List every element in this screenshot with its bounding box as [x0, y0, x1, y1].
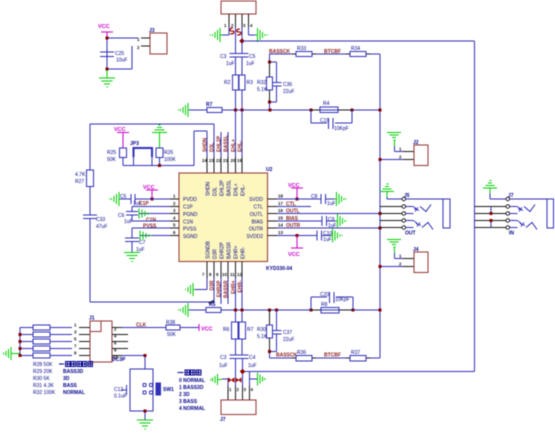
- svg-text:EHR+: EHR+: [234, 245, 240, 259]
- node junction SW1 bottom: [144, 410, 147, 413]
- ground (above J7 jack): [483, 181, 497, 194]
- svg-text:SVDD2: SVDD2: [246, 234, 263, 240]
- svg-text:R34: R34: [351, 46, 360, 52]
- pin circle J7-1: [506, 197, 510, 201]
- svg-text:4 NORMAL: 4 NORMAL: [179, 406, 205, 412]
- svg-text:D3R: D3R: [213, 249, 219, 259]
- wire IC col4 stub: [227, 132, 229, 157]
- wire R37 to right bus: [370, 357, 380, 359]
- pin circle J5-1: [402, 197, 406, 201]
- node junction VCC row1: [151, 198, 154, 201]
- wire ground to J7 tip: [490, 194, 506, 200]
- svg-text:OUT: OUT: [405, 231, 416, 237]
- jack J7 sleeve bar: [547, 199, 554, 228]
- wire R6 to C3b: [235, 339, 237, 355]
- jack J5 contact 1: [406, 207, 418, 214]
- svg-text:1 BASS3D: 1 BASS3D: [179, 385, 204, 391]
- polarity mark S2 (red squiggle): [237, 29, 241, 35]
- node junction SW1 top: [144, 354, 147, 357]
- ground (left of bottom connector): [211, 374, 222, 385]
- wire left loop bottom: [90, 219, 214, 303]
- pin circle J5-2: [402, 205, 406, 209]
- wire IC col2 from top loop: [213, 124, 215, 157]
- svg-text:J1: J1: [89, 316, 95, 322]
- svg-text:EHL-: EHL-: [238, 140, 244, 152]
- wire SW1 to ground: [144, 411, 146, 420]
- resistor R7b: [239, 322, 246, 339]
- node junction below R26: [158, 164, 161, 167]
- resistor R7: [207, 108, 222, 113]
- ground (row1 left): [110, 192, 121, 206]
- capacitor C25: [100, 52, 114, 57]
- wire BIAS row to C9: [277, 220, 322, 222]
- svg-text:VCC: VCC: [143, 185, 155, 191]
- svg-text:EHL+: EHL+: [234, 183, 240, 196]
- wire stubs to J7 pins: [475, 207, 506, 228]
- svg-text:0.1uF: 0.1uF: [114, 394, 127, 400]
- wire P1 pin2 down to C3: [235, 27, 237, 53]
- power flag VCC (JP3): [117, 133, 129, 149]
- svg-text:OUTR: OUTR: [249, 227, 264, 233]
- ground (above J5 jack): [380, 184, 394, 197]
- wire C10 to ground: [322, 235, 331, 237]
- svg-text:SVDD: SVDD: [249, 197, 263, 203]
- node junction R32 bottom: [268, 101, 271, 104]
- pin circle J5-4: [402, 219, 406, 223]
- wire J1 row5 to SW1: [122, 356, 145, 370]
- capacitor C37: [270, 310, 277, 358]
- wire C9 to ground: [327, 220, 336, 222]
- svg-text:OUTL: OUTL: [250, 212, 264, 218]
- svg-text:11: 11: [230, 272, 235, 277]
- svg-text:22uF: 22uF: [283, 337, 294, 343]
- svg-text:J2: J2: [413, 140, 419, 146]
- wire junction to pin4 and right ground: [250, 372, 258, 387]
- svg-text:VCC: VCC: [98, 24, 110, 30]
- pin stubs IC top: [207, 157, 242, 173]
- svg-text:BASSL: BASSL: [227, 180, 233, 196]
- svg-text:BIAS: BIAS: [252, 220, 264, 226]
- svg-text:NORMAL: NORMAL: [63, 390, 85, 396]
- svg-text:D3R: D3R: [210, 280, 216, 290]
- wire J7 tip to sleeve: [510, 198, 547, 200]
- wire C8 to ground: [326, 198, 335, 200]
- wire J1 row1 to R38: [122, 327, 166, 329]
- svg-text:KYD330-04: KYD330-04: [266, 266, 292, 272]
- connector J2: [414, 145, 428, 166]
- wire IC col6 from bus: [241, 110, 243, 157]
- resistor R2: [233, 75, 239, 90]
- wire IC bottom col1 to ground: [195, 278, 207, 290]
- wire IC bottom col3 stub: [220, 278, 222, 304]
- svg-text:BASSL: BASSL: [224, 135, 230, 152]
- pin stubs P1: [229, 14, 249, 27]
- polarity mark S1 (red squiggle): [230, 28, 234, 34]
- wire C1N row: [132, 215, 170, 221]
- ground (right of C9): [336, 214, 348, 228]
- resistor R28: [33, 325, 50, 330]
- resistor R34: [346, 53, 370, 55]
- ground (above R26): [152, 125, 167, 148]
- svg-text:BASS3D: BASS3D: [63, 369, 84, 375]
- polarity mark (red bowtie 1): [229, 378, 235, 382]
- wire R2 to bus: [235, 90, 237, 110]
- resistor R30: [269, 310, 271, 352]
- wires resistors to J1: [50, 328, 72, 356]
- svg-text:C19: C19: [320, 118, 329, 124]
- svg-text:R29 20K: R29 20K: [33, 369, 53, 375]
- wire bottom border: [243, 371, 475, 373]
- ground (above J2): [387, 133, 401, 147]
- wire PVDD row to cap: [135, 198, 170, 200]
- wire SHDN loop top: [90, 124, 214, 170]
- wire IC col3 stub: [220, 132, 222, 157]
- capacitor C3: [230, 54, 242, 58]
- node junctions bus at jack rows: [379, 212, 382, 215]
- resistor R33: [270, 53, 293, 55]
- node junction VCC right row1: [296, 198, 299, 201]
- svg-text:2 3D: 2 3D: [179, 392, 190, 398]
- capacitor C20: [311, 297, 353, 310]
- jumper JP3: [134, 148, 153, 157]
- svg-text:19: 19: [237, 158, 242, 163]
- wire R38 to VCC port: [180, 327, 199, 329]
- capacitor C5: [237, 54, 249, 58]
- svg-text:VCC: VCC: [288, 252, 300, 258]
- svg-text:47uF: 47uF: [96, 224, 107, 230]
- ground (right of P1): [256, 28, 268, 42]
- svg-text:VCC: VCC: [114, 127, 126, 133]
- wire IC bottom col6 to bus: [241, 278, 243, 322]
- wire JP3 bottom row: [123, 158, 194, 166]
- wire IC col5 from bus: [235, 110, 237, 157]
- wire ground to J2 pin1: [395, 146, 404, 152]
- pin stubs J1 right: [112, 328, 128, 356]
- svg-text:EHR2P: EHR2P: [217, 280, 223, 297]
- pin stubs IC bottom: [207, 262, 242, 279]
- capacitor C36: [276, 62, 278, 102]
- left vertical loop: resistor R27 4.7K: [87, 170, 94, 187]
- svg-text:17: 17: [278, 201, 283, 206]
- wire SGND row: [140, 235, 170, 237]
- svg-text:EHR+: EHR+: [231, 280, 237, 294]
- svg-text:R8: R8: [321, 302, 328, 308]
- capacitor C9: [322, 216, 327, 226]
- svg-text:C4: C4: [249, 355, 256, 361]
- resistor R32b: [33, 353, 50, 358]
- ground (left of P1): [210, 28, 222, 42]
- wire PVSS row to C7: [132, 228, 170, 238]
- svg-text:5.1K: 5.1K: [257, 87, 268, 93]
- svg-text:VCC: VCC: [288, 183, 300, 189]
- svg-text:R2: R2: [224, 80, 231, 86]
- svg-text:R37: R37: [351, 350, 360, 356]
- pin circle J5-5: [402, 226, 406, 230]
- wire top border: [242, 40, 475, 42]
- polarity mark (red bowtie 2): [236, 378, 242, 382]
- capacitor C6: [126, 211, 138, 215]
- svg-text:R7: R7: [206, 102, 213, 108]
- svg-text:12: 12: [237, 272, 242, 277]
- svg-text:R31 4.3K: R31 4.3K: [33, 383, 55, 389]
- jack J5 contact 2: [406, 221, 418, 228]
- svg-text:C12: C12: [114, 387, 123, 393]
- wire R3 to bus: [241, 90, 243, 110]
- svg-text:R30 5K: R30 5K: [33, 376, 50, 382]
- wire J3 pin2 loop: [107, 46, 132, 69]
- resistor R37: [346, 357, 370, 359]
- capacitor C19: [311, 110, 352, 123]
- svg-text:SHDN: SHDN: [203, 137, 209, 152]
- svg-text:IN: IN: [509, 231, 514, 237]
- wire R36 to R37: [316, 357, 346, 359]
- pin stubs IC right: [268, 199, 278, 236]
- svg-text:100K: 100K: [164, 157, 176, 163]
- svg-text:EHR-: EHR-: [238, 280, 244, 293]
- wire OUTL row to bus: [277, 213, 380, 215]
- svg-text:J4: J4: [413, 247, 419, 253]
- svg-text:5.1K: 5.1K: [257, 334, 268, 340]
- svg-text:R38: R38: [166, 320, 175, 326]
- mode list header: [178, 370, 201, 375]
- wire SVDD row to C8: [277, 198, 321, 200]
- svg-text:10KpF: 10KpF: [334, 126, 349, 132]
- svg-text:R5: R5: [209, 302, 216, 308]
- resistor R38: [166, 325, 180, 330]
- svg-text:23: 23: [209, 158, 214, 163]
- node junction at cap top: [106, 37, 109, 40]
- wire entry mark (col2 bottom): [209, 301, 214, 304]
- svg-text:3 BASS: 3 BASS: [179, 399, 198, 405]
- svg-text:22uF: 22uF: [283, 89, 294, 95]
- wire C3 to R2: [235, 57, 237, 75]
- connector J4: [414, 252, 428, 273]
- svg-text:C33: C33: [96, 217, 105, 223]
- capacitor C8: [321, 194, 326, 204]
- ground (row6 pointing right): [140, 231, 151, 241]
- power flag VCC (right of IC, top): [291, 188, 303, 199]
- ground (row3 pointing right): [139, 209, 150, 219]
- power flag VCC (right of IC, bottom): [291, 236, 303, 249]
- svg-text:1uF: 1uF: [323, 237, 332, 243]
- wire bus to J2 pin2: [380, 159, 403, 161]
- wire BASSCK row down to R32: [270, 54, 277, 110]
- svg-text:C3: C3: [220, 54, 227, 60]
- SW1 actuator: [156, 383, 161, 395]
- ground (above J4): [387, 240, 401, 254]
- svg-text:R28 50K: R28 50K: [33, 362, 53, 368]
- svg-text:16: 16: [278, 208, 283, 213]
- capacitor C3b: [230, 355, 242, 359]
- svg-text:1uF: 1uF: [248, 363, 257, 369]
- svg-text:18: 18: [278, 194, 283, 199]
- svg-text:C1P: C1P: [183, 205, 193, 211]
- svg-text:SHDN: SHDN: [206, 181, 212, 196]
- wire PGND row to ground: [139, 213, 170, 215]
- resistor R8: [311, 309, 353, 311]
- wire C5 to R3: [241, 57, 243, 75]
- svg-text:VCC: VCC: [201, 327, 213, 333]
- svg-text:4.7K: 4.7K: [75, 172, 86, 178]
- svg-text:SW1: SW1: [163, 387, 174, 393]
- svg-text:R26: R26: [164, 150, 173, 156]
- svg-text:50K: 50K: [107, 157, 117, 163]
- switch SW1 body: [130, 369, 153, 411]
- ground (right of C10): [331, 229, 343, 243]
- ground (below C25): [99, 70, 115, 87]
- svg-text:EHR-: EHR-: [241, 246, 247, 259]
- svg-text:24: 24: [202, 158, 207, 163]
- power flag VCC (left of IC): [146, 190, 158, 199]
- svg-text:C25: C25: [115, 51, 124, 57]
- resistor R32: [269, 62, 271, 102]
- jack J7 contact 1: [510, 207, 522, 214]
- svg-text:1uF: 1uF: [219, 363, 228, 369]
- wire IC bottom col2 to loop: [213, 278, 215, 303]
- svg-text:13: 13: [278, 230, 283, 235]
- wire R7b to C4: [241, 339, 243, 355]
- ground (below C7): [124, 253, 140, 262]
- node junctions on top bus: [234, 109, 237, 112]
- pin stubs IC left: [170, 199, 179, 236]
- wire C4 to junction: [242, 359, 244, 387]
- svg-text:14: 14: [278, 223, 283, 228]
- svg-text:D3L: D3L: [213, 187, 219, 196]
- wire SHDN loop to IC col1: [194, 131, 207, 166]
- wire C1P row: [132, 206, 170, 211]
- svg-text:R25: R25: [107, 150, 116, 156]
- svg-text:SGND: SGND: [183, 234, 198, 240]
- svg-text:10: 10: [222, 272, 227, 277]
- resistor R36: [270, 357, 293, 359]
- pin circle J7-3: [506, 212, 510, 216]
- svg-text:1uF: 1uF: [246, 61, 255, 67]
- svg-text:R4: R4: [323, 101, 330, 107]
- svg-text:J3: J3: [149, 28, 155, 34]
- svg-text:50K: 50K: [167, 332, 177, 338]
- link J7 pins 4-5: [490, 221, 492, 228]
- wire right border: [474, 41, 476, 372]
- svg-text:C7: C7: [139, 240, 146, 246]
- svg-text:C36: C36: [283, 82, 292, 88]
- wire IC bottom col5 to bus: [235, 278, 237, 322]
- resistor R4: [311, 109, 352, 111]
- capacitor C12: [122, 385, 131, 395]
- power flag VCC (top-left): [101, 32, 113, 39]
- node junctions on bottom bus: [234, 309, 237, 312]
- wire P1 pin4 to right ground: [249, 27, 256, 35]
- power port VCC (bottom): [198, 324, 200, 331]
- svg-text:U2: U2: [266, 167, 273, 173]
- svg-text:EHL+: EHL+: [231, 139, 237, 152]
- wire P1 pin3 down to C5: [241, 27, 243, 53]
- svg-text:21: 21: [223, 158, 228, 163]
- svg-text:PVSS: PVSS: [183, 227, 197, 233]
- node junction top border start: [239, 38, 244, 43]
- ground (bottom col1): [186, 283, 196, 296]
- svg-text:1uF: 1uF: [226, 61, 235, 67]
- svg-text:R6: R6: [223, 327, 230, 333]
- node junctions J1 rail: [19, 333, 22, 336]
- svg-text:0 NORMAL: 0 NORMAL: [179, 378, 205, 384]
- node junction bottom border: [240, 369, 245, 374]
- svg-text:JP3: JP3: [130, 141, 139, 147]
- resistor R26: [156, 148, 163, 158]
- wire J5 tip to sleeve: [406, 198, 443, 200]
- svg-text:PGND: PGND: [183, 212, 198, 218]
- resistor R5: [206, 308, 221, 313]
- svg-text:15: 15: [278, 215, 283, 220]
- connector J3: [150, 33, 167, 54]
- resistor R6: [232, 322, 239, 339]
- svg-text:R32: R32: [257, 80, 266, 86]
- wire ground to R7: [189, 109, 207, 111]
- wire top bus: [222, 109, 380, 111]
- wire R33 to R34: [316, 53, 346, 55]
- wire R34 to right bus: [370, 54, 380, 358]
- resistor R29: [33, 332, 50, 337]
- capacitor C10: [317, 231, 322, 241]
- pin stubs J1 left: [79, 328, 90, 356]
- svg-text:D3L: D3L: [210, 143, 216, 152]
- svg-text:10uF: 10uF: [116, 58, 127, 64]
- svg-text:10KpF: 10KpF: [335, 297, 350, 303]
- svg-text:EHR2P: EHR2P: [220, 242, 226, 259]
- pin circle J7-5: [506, 226, 510, 230]
- capacitor C33: [83, 215, 97, 219]
- ground (bottom bus, left): [179, 303, 190, 317]
- svg-text:C20: C20: [320, 292, 329, 298]
- wire bus to J4 pin2: [380, 266, 403, 268]
- node junction bus J2: [379, 158, 382, 161]
- wire cap to ground row1: [120, 198, 131, 200]
- wire P1 pin1 to left ground: [222, 27, 229, 35]
- node junction R32 top: [268, 61, 271, 64]
- svg-text:DC3P: DC3P: [112, 357, 126, 363]
- connector J7b (bottom): [221, 400, 256, 415]
- svg-text:CTL: CTL: [254, 205, 264, 211]
- connector P1 (top): [221, 1, 256, 14]
- jack J5 sleeve bar: [443, 199, 450, 228]
- svg-text:C8: C8: [311, 194, 318, 200]
- svg-text:20: 20: [231, 158, 236, 163]
- ground (left of J1 bank): [4, 347, 20, 360]
- pin circle J5-3: [402, 212, 406, 216]
- wire SVDD2 row to C10: [277, 235, 317, 237]
- wire VCC to J3 pin1: [107, 38, 138, 70]
- svg-text:1uF: 1uF: [124, 219, 133, 225]
- wire ground to J4 pin1: [395, 253, 404, 259]
- ground (right of C8): [335, 192, 347, 206]
- svg-text:R27: R27: [75, 179, 84, 185]
- svg-text:EHL2P: EHL2P: [217, 135, 223, 152]
- svg-text:1uF: 1uF: [327, 201, 336, 207]
- wire ground to R5: [189, 309, 206, 311]
- node junction at cap bottom: [106, 68, 109, 71]
- svg-text:R36: R36: [297, 350, 306, 356]
- capacitor C7: [125, 238, 139, 242]
- svg-text:3D: 3D: [63, 376, 70, 382]
- capacitor C5L: [131, 194, 135, 204]
- svg-text:R33: R33: [297, 46, 306, 52]
- wire CTL row: [277, 205, 311, 207]
- svg-text:BASSR: BASSR: [224, 280, 230, 298]
- wire OUTR row to bus: [277, 227, 380, 229]
- svg-text:R30: R30: [257, 327, 266, 333]
- svg-text:PVDD: PVDD: [183, 197, 197, 203]
- pin circle J7-4: [506, 219, 510, 223]
- wire stubs to J5 pins: [380, 207, 402, 228]
